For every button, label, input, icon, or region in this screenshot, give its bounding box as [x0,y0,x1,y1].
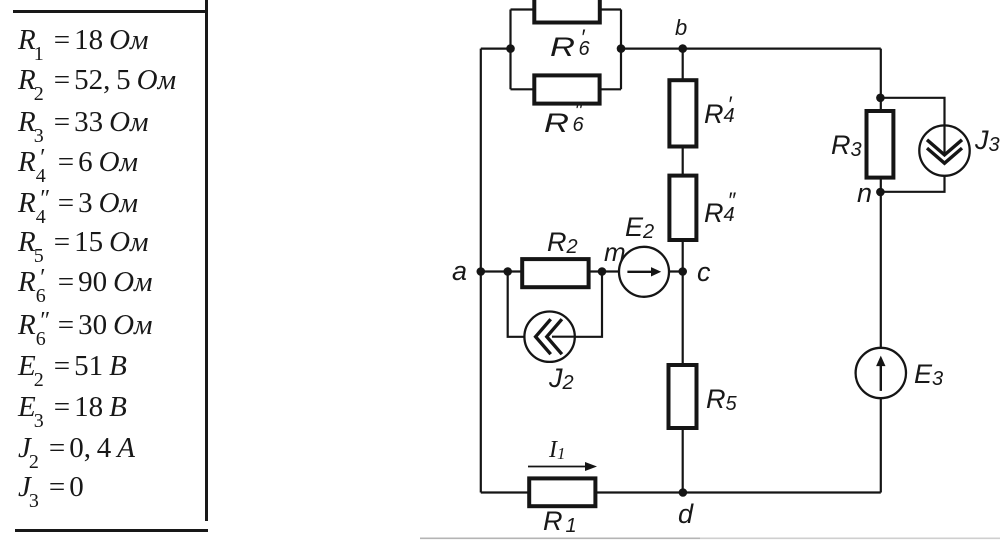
R4' value row [18,148,138,177]
node n dot [876,188,885,197]
wire R6 top branch right [598,8,621,10]
current source J2 circle [524,312,574,362]
J2 double chevron pointing left [536,319,562,354]
label R6'' [544,110,591,137]
wire R6 bottom branch right [598,88,621,90]
resistor R4'' box [669,176,696,240]
label R5 [706,386,737,413]
faint page-edge line bottom [420,537,700,539]
R3 value row [18,108,149,137]
resistor R6'' box [534,75,599,103]
resistor R2 box [522,259,588,287]
node dot R6 left [506,44,515,53]
table top rule [13,10,206,13]
current source J3 circle [919,125,969,175]
resistor R5 box [669,365,697,428]
R4'' value row [18,189,138,218]
wire left vertical a-branch [480,49,482,493]
label R4'' [704,200,739,227]
wire a to c horizontal [481,270,683,272]
label b [675,17,687,39]
label R4' [704,101,739,128]
J3 value row [18,473,84,502]
label R1 [543,508,577,535]
label a [452,258,467,285]
resistor R4' box [669,80,696,146]
E2 value row [18,352,127,381]
wire J2 loop [508,272,602,337]
resistor R1 box [529,478,595,506]
voltage source E2 circle [619,247,669,297]
R5 value row [18,228,149,257]
node dot J2 left [503,267,512,276]
wire top horizontal b row [621,47,881,49]
wire J3 loop [880,98,944,192]
node a dot [477,267,486,276]
wire R6 left bracket vertical [509,10,511,90]
label R2 [547,229,578,256]
J2 value row [18,434,135,463]
E3 value row [18,393,127,422]
wire R6 right bracket vertical [620,10,622,90]
label d [678,501,693,528]
label m [604,239,626,265]
label c [697,259,711,286]
R6' value row [18,268,153,297]
label E3 [914,361,943,388]
table right rule [205,0,208,521]
resistor R3 box [867,111,894,178]
J2 wire stub inside circle [552,336,575,338]
node m dot [598,267,607,276]
node c dot [678,267,687,276]
label I1 current [549,438,566,462]
I1 current arrow [528,466,586,468]
wire R6 top branch left [511,8,537,10]
wire top-left horizontal to R6 bracket [481,47,511,49]
E2 arrow [627,271,651,273]
node b dot [678,44,687,53]
E3 arrow [880,364,882,391]
J3 wire stub inside circle [943,125,945,153]
R6'' value row [18,311,153,340]
label R3 [831,132,862,159]
wire R6 bottom branch left [511,88,537,90]
label J3 [975,127,1000,154]
node dot J3 top [876,94,885,103]
label E2 [625,214,654,241]
J3 double chevron pointing down [927,140,962,163]
wire middle vertical b to d [682,49,684,493]
label n [857,180,872,207]
wire right vertical [880,49,882,493]
node d dot [679,488,688,497]
voltage source E3 circle [856,348,906,398]
wire bottom horizontal [481,491,881,493]
resistor R6' box (top, clipped) [534,0,600,23]
table bottom rule [15,529,208,532]
label J2 [549,365,574,392]
R2 value row [18,66,176,95]
node dot R6 right [617,44,626,53]
label R6' [550,34,597,61]
R1 value row [18,26,149,55]
